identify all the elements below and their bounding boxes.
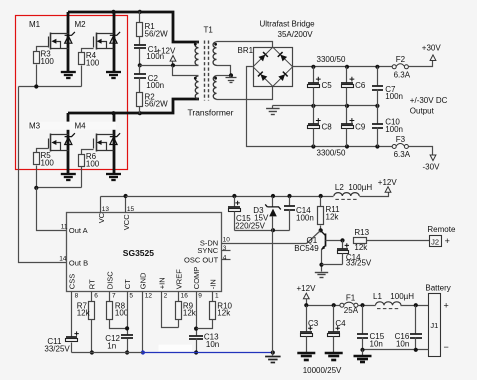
wire gate net A to Out B pin 14 — [19, 87, 67, 263]
wire C15 D3 C14 bottom link — [235, 230, 290, 232]
svg-text:33/25V: 33/25V — [346, 259, 372, 268]
power +12V battery arrow — [303, 293, 309, 299]
svg-text:15: 15 — [127, 206, 135, 213]
node C12 rail junction — [125, 350, 129, 354]
svg-text:VREF: VREF — [174, 269, 183, 289]
ground below M3 — [61, 173, 76, 175]
svg-text:220/25V: 220/25V — [235, 221, 265, 230]
svg-text:J1: J1 — [430, 321, 438, 330]
node C15 top — [232, 194, 236, 198]
diode BR1 top-right — [278, 52, 287, 61]
svg-text:12k: 12k — [77, 309, 91, 318]
capacitor C12 — [121, 334, 133, 336]
svg-text:12: 12 — [145, 292, 153, 299]
capacitor C14 100n — [289, 197, 291, 207]
svg-text:T1: T1 — [204, 26, 214, 35]
svg-text:5: 5 — [129, 292, 133, 299]
transistor M3 — [50, 134, 52, 152]
svg-text:Battery: Battery — [425, 283, 450, 292]
node M4 drain on mid bus — [111, 111, 115, 115]
node C5 bottom — [311, 104, 315, 108]
svg-text:10n: 10n — [370, 339, 383, 348]
svg-text:10000/25V: 10000/25V — [303, 366, 342, 375]
svg-text:6.3A: 6.3A — [394, 150, 411, 159]
wire R6 bottom to gate net B — [81, 167, 83, 188]
pin 10 S-DN wire — [222, 243, 307, 245]
svg-text:F1: F1 — [346, 294, 356, 303]
power +12V arrow shutdown rail — [385, 187, 391, 193]
wire gate lead M1 — [37, 47, 49, 52]
wire shutdown node down to ground rail — [272, 231, 274, 353]
power +12V arrow at center tap — [170, 56, 176, 62]
svg-text:C9: C9 — [355, 122, 366, 131]
node emitter C14b bottom junction — [319, 263, 323, 267]
node R7 rail junction — [90, 350, 94, 354]
transistor M2 — [96, 33, 98, 50]
body diode of M3 — [65, 137, 72, 144]
connector J1 Battery — [429, 294, 441, 357]
connector J2 Remote — [430, 236, 442, 247]
capacitor C15 220u — [234, 197, 236, 207]
wire R9 bottom to +IN — [178, 320, 180, 328]
wire R13 to J2 — [367, 240, 430, 242]
node snubber midpoint +12V — [138, 63, 142, 67]
node C5 top — [311, 65, 315, 69]
svg-text:9: 9 — [198, 292, 202, 299]
svg-text:1: 1 — [215, 292, 219, 299]
svg-text:4: 4 — [223, 254, 227, 261]
resistor R8 — [107, 302, 113, 320]
pin 2 +IN wire — [162, 292, 179, 328]
svg-text:L1: L1 — [373, 292, 382, 301]
diode BR1 bottom-right — [278, 72, 287, 81]
resistor R1 — [137, 23, 143, 37]
wire M1 drain-source rail — [67, 12, 70, 72]
svg-text:L2: L2 — [335, 183, 344, 192]
node primary phasing dot bottom — [194, 77, 197, 80]
node C6 bottom — [345, 104, 349, 108]
svg-text:−: − — [444, 342, 449, 352]
transformer T1 primary top winding — [195, 42, 198, 65]
node C3 top — [304, 303, 308, 307]
wire control ground rail blue part — [143, 352, 273, 354]
diode BR1 bottom-left — [258, 72, 267, 81]
node C15b bottom — [360, 348, 364, 352]
wire F1 to L1 — [358, 305, 376, 307]
svg-text:+IN: +IN — [157, 277, 166, 289]
svg-text:M4: M4 — [75, 122, 87, 131]
svg-text:16: 16 — [181, 292, 189, 299]
svg-text:C3: C3 — [308, 319, 319, 328]
svg-text:C8: C8 — [322, 122, 333, 131]
fuse F2 — [392, 65, 396, 69]
wire R8 to CT node — [110, 320, 128, 329]
ground at 0V mid rail — [272, 106, 274, 109]
ground below battery minus — [362, 350, 364, 356]
ground below M4 — [106, 173, 121, 175]
wire bridge plus to +30V rail — [293, 66, 393, 68]
svg-text:M2: M2 — [75, 20, 87, 29]
svg-text:+12V: +12V — [378, 178, 398, 187]
wire primary center tap upper — [173, 65, 199, 67]
svg-text:35A/200V: 35A/200V — [278, 30, 314, 39]
svg-text:SG3525: SG3525 — [123, 248, 154, 258]
ground at Q1 emitter — [315, 272, 328, 274]
svg-text:10: 10 — [223, 237, 231, 244]
capacitor C4 — [333, 306, 335, 332]
node F1 C15b junction — [360, 303, 364, 307]
capacitor C8 — [313, 106, 315, 125]
svg-text:F3: F3 — [396, 135, 406, 144]
wire primary center tap lower — [173, 66, 199, 76]
svg-text:3: 3 — [223, 245, 227, 252]
svg-text:C4: C4 — [335, 319, 346, 328]
svg-text:15V: 15V — [254, 213, 269, 222]
wire secondary center tap upper — [217, 66, 231, 76]
node R11 top — [319, 194, 323, 198]
wire gate net B to Out A pin 11 — [37, 188, 67, 231]
node C16 bottom — [414, 348, 418, 352]
wire gate lead M4 — [82, 150, 94, 155]
capacitor C3 — [306, 306, 308, 332]
svg-text:12k: 12k — [354, 243, 368, 252]
svg-text:3300/50: 3300/50 — [317, 148, 346, 157]
bridge rectifier BR1 — [254, 48, 293, 87]
wire gate net B horizontal — [37, 187, 82, 189]
pin 6 RT wire — [91, 292, 93, 302]
transistor M1 — [50, 33, 52, 50]
node secondary phasing dot bottom — [214, 77, 217, 80]
svg-text:C5: C5 — [322, 81, 333, 90]
wire +12V node to C2 — [139, 66, 141, 74]
fuse F1 — [340, 303, 344, 307]
resistor R9 — [176, 302, 182, 320]
transistor Q1 BC549 — [325, 234, 327, 247]
wire S-DN diagonal to collector node — [307, 231, 321, 244]
svg-text:R13: R13 — [354, 228, 369, 237]
wire control ground rail gray part — [72, 352, 143, 354]
node R1 top on top bus — [138, 10, 142, 14]
resistor R3 — [34, 52, 40, 64]
svg-text:M3: M3 — [29, 122, 41, 131]
svg-text:COMP: COMP — [192, 267, 201, 290]
node R2 bottom on mid bus — [138, 111, 142, 115]
node VCC junction — [124, 194, 128, 198]
ground below M2 — [106, 71, 121, 73]
node shutdown wire to rail — [271, 350, 275, 354]
svg-text:7: 7 — [112, 292, 116, 299]
node GND rail junction blue — [141, 350, 145, 354]
resistor R11 — [320, 197, 322, 207]
wire +12V rail over IC — [126, 196, 334, 198]
wire R10 bottom to COMP — [197, 320, 213, 329]
svg-text:11: 11 — [61, 224, 68, 231]
transformer T1 core — [204, 41, 206, 101]
svg-text:CT: CT — [123, 279, 132, 289]
wire R5 bottom to gate net B — [36, 166, 38, 188]
wire top drain bus to transformer primary top — [68, 12, 199, 42]
wire battery +12V rail — [307, 305, 340, 307]
svg-text:BC549: BC549 — [294, 244, 319, 253]
svg-text:OSC OUT: OSC OUT — [184, 256, 219, 265]
capacitor C10 — [377, 106, 379, 125]
node C7 top — [375, 65, 379, 69]
pin 5 CT wire — [127, 292, 129, 335]
svg-text:100: 100 — [115, 309, 129, 318]
wire R3 bottom to gate net A — [36, 65, 38, 87]
wire secondary center tap lower — [217, 75, 231, 77]
svg-text:+12V: +12V — [156, 47, 176, 56]
svg-text:8: 8 — [75, 292, 79, 299]
svg-text:-30V: -30V — [423, 162, 441, 171]
svg-text:-IN: -IN — [209, 279, 218, 289]
node D3 top — [271, 194, 275, 198]
svg-text:GND: GND — [139, 272, 148, 289]
capacitor C2 — [134, 73, 146, 75]
wire +12V node to center tap — [140, 65, 173, 67]
node CT R8 junction — [125, 326, 129, 330]
capacitor C16 — [415, 306, 417, 335]
body diode of M1 — [65, 36, 72, 43]
svg-text:VC: VC — [97, 212, 106, 223]
pin 15 VCC — [125, 197, 127, 213]
svg-text:12k: 12k — [326, 212, 340, 221]
capacitor C13 — [189, 335, 203, 337]
svg-text:C6: C6 — [355, 81, 366, 90]
svg-text:100n: 100n — [296, 213, 314, 222]
wire R7 to gnd rail — [91, 320, 93, 353]
svg-text:100: 100 — [86, 58, 100, 67]
svg-text:25A: 25A — [344, 306, 359, 315]
wire M2 drain-source rail — [113, 12, 116, 72]
capacitor C9 — [346, 106, 348, 125]
wire VC VCC to +12V rail — [101, 196, 126, 198]
inductor L2 100uH — [334, 193, 359, 196]
svg-text:10n: 10n — [206, 340, 219, 349]
node secondary center tap — [229, 73, 233, 77]
capacitor C1 — [134, 44, 146, 46]
svg-text:Out A: Out A — [69, 226, 88, 235]
capacitor C15 10n — [362, 306, 364, 335]
wire M3 drain-source rail — [67, 113, 70, 173]
svg-text:33/25V: 33/25V — [44, 345, 70, 354]
wire F3 to -30V — [409, 147, 433, 155]
svg-text:100µH: 100µH — [390, 292, 414, 301]
svg-text:SYNC: SYNC — [197, 246, 218, 255]
node primary center tap — [171, 63, 175, 67]
svg-text:2: 2 — [164, 292, 168, 299]
svg-text:Ultrafast Bridge: Ultrafast Bridge — [260, 20, 316, 29]
svg-text:6.3A: 6.3A — [394, 71, 411, 80]
svg-text:100n: 100n — [385, 92, 403, 101]
wire secondary bottom to bridge AC2 — [217, 87, 273, 100]
svg-text:+12V: +12V — [297, 284, 317, 293]
node C9 bottom rail — [345, 144, 349, 148]
svg-text:1n: 1n — [107, 341, 116, 350]
svg-text:+: + — [445, 236, 450, 246]
pin 8 CSS wire to C11 — [71, 292, 73, 338]
node Q1 collector junction — [319, 228, 323, 232]
pin 13 VC — [100, 197, 102, 213]
wire F2 to +30V — [409, 61, 433, 67]
wire mid drain bus to transformer primary bottom — [68, 99, 199, 113]
node C4 top — [332, 303, 336, 307]
svg-text:CSS: CSS — [67, 274, 76, 289]
transistor M4 — [96, 134, 98, 152]
wire R1 to C1 — [139, 37, 141, 45]
svg-text:56/2W: 56/2W — [145, 29, 169, 38]
ground below C3 — [297, 352, 315, 355]
resistor R7 — [89, 302, 95, 320]
pin 4 OSC OUT stub — [222, 259, 231, 261]
wire top bus to R1 — [139, 12, 141, 23]
svg-text:M1: M1 — [29, 20, 41, 29]
pin 16 VREF wire — [178, 292, 180, 302]
svg-text:100: 100 — [41, 158, 55, 167]
resistor R5 — [34, 153, 40, 165]
node C7 bottom C10 top — [375, 104, 379, 108]
white patch above ground rail — [159, 345, 193, 352]
pin 3 SYNC stub — [222, 250, 231, 252]
svg-text:Output: Output — [410, 107, 435, 116]
wire C14b bottom to emitter — [322, 264, 343, 266]
wire bridge minus to -30V rail — [247, 67, 393, 147]
capacitor C5 — [313, 67, 315, 83]
body diode of M2 — [110, 36, 117, 43]
wire Q1 base to R13 node — [326, 240, 343, 242]
node C10 bottom rail — [375, 144, 379, 148]
ground below C4 — [325, 352, 343, 355]
ground at control rail end — [272, 353, 274, 356]
node gate net B at R5 — [34, 186, 38, 190]
svg-text:100n: 100n — [146, 81, 164, 90]
diode D3 zener 15V — [272, 197, 274, 207]
wire C1 to +12V node — [139, 49, 141, 66]
resistor R10 — [210, 302, 216, 320]
ground at secondary center tap — [230, 76, 232, 78]
node C13 rail junction — [194, 350, 198, 354]
wire L2 to +12V arrow — [360, 193, 389, 197]
op-amp U1 SG3525 body — [67, 213, 222, 292]
node gate net A at R3 — [34, 84, 38, 88]
pin 7 DISC wire — [109, 292, 111, 302]
transformer T1 secondary top winding — [213, 42, 216, 65]
pin 1 -IN wire — [212, 292, 214, 302]
svg-text:56/2W: 56/2W — [145, 100, 169, 109]
fuse F3 — [392, 145, 396, 149]
wire R2 to mid bus — [139, 107, 141, 114]
svg-text:RT: RT — [88, 279, 97, 289]
resistor R4 — [79, 53, 85, 65]
svg-text:100n: 100n — [385, 125, 403, 134]
node M2 drain on top bus — [111, 10, 115, 14]
pin 12 GND wire — [142, 292, 144, 353]
transformer T1 primary bottom winding — [195, 76, 198, 99]
svg-text:J2: J2 — [431, 237, 439, 246]
capacitor C11 — [66, 336, 77, 338]
resistor R13 — [354, 238, 367, 244]
svg-text:6: 6 — [94, 292, 98, 299]
node C14 top — [287, 194, 291, 198]
svg-text:F2: F2 — [396, 55, 406, 64]
power +30V arrow — [430, 55, 436, 61]
svg-text:Transformer: Transformer — [188, 108, 234, 118]
pin 9 COMP wire — [196, 292, 198, 336]
svg-text:3300/50: 3300/50 — [317, 55, 346, 64]
white band behind M3 M4 labels — [28, 122, 116, 130]
svg-text:12k: 12k — [217, 309, 231, 318]
wire R4 bottom to gate net A — [81, 66, 83, 87]
node C8 bottom rail — [311, 144, 315, 148]
svg-text:DISC: DISC — [106, 271, 115, 290]
wire +12V arrow to rail — [306, 299, 308, 306]
node L1 C16 junction — [414, 303, 418, 307]
wire C2 to R2 — [139, 78, 141, 93]
svg-text:14: 14 — [59, 255, 67, 262]
svg-text:+30V: +30V — [422, 43, 442, 52]
diode BR1 top-left — [258, 52, 267, 61]
capacitor C7 — [377, 67, 379, 87]
wire 0V mid rail — [273, 105, 378, 107]
svg-text:BR1: BR1 — [238, 46, 254, 55]
wire gate lead M3 — [37, 149, 49, 153]
svg-text:Remote: Remote — [427, 225, 456, 234]
svg-text:100: 100 — [41, 57, 55, 66]
node base C14b R13 junction — [340, 238, 344, 242]
wire secondary top to bridge AC1 — [217, 42, 273, 48]
body diode of M4 — [110, 137, 117, 144]
wire L1 to J1 — [401, 305, 429, 307]
capacitor C6 — [346, 67, 348, 83]
node primary phasing dot top — [194, 43, 197, 46]
red highlight box around MOSFET section — [16, 16, 128, 170]
node C6 top — [345, 65, 349, 69]
svg-text:12k: 12k — [183, 309, 197, 318]
svg-text:+: + — [444, 300, 449, 310]
svg-text:10n: 10n — [396, 339, 409, 348]
svg-text:Out B: Out B — [69, 258, 88, 267]
svg-text:100µH: 100µH — [348, 183, 372, 192]
svg-text:VCC: VCC — [122, 214, 131, 230]
transformer T1 secondary bottom winding — [213, 76, 216, 99]
inductor L1 100uH — [376, 302, 402, 305]
svg-text:13: 13 — [102, 206, 110, 213]
node COMP R10 junction — [194, 327, 198, 331]
wire gate net A horizontal — [19, 86, 82, 88]
ground below M1 — [61, 71, 76, 73]
svg-text:+/-30V DC: +/-30V DC — [410, 96, 448, 105]
resistor R6 — [79, 155, 85, 167]
node secondary phasing dot top — [214, 43, 217, 46]
wire M4 drain-source rail — [113, 113, 116, 173]
wire Q1 emitter down — [321, 250, 323, 272]
wire battery minus rail — [363, 349, 429, 351]
wire gate lead M2 — [82, 49, 94, 53]
power -30V arrow — [430, 155, 436, 161]
resistor R2 — [137, 93, 143, 107]
capacitor C14 33/25V — [342, 241, 344, 249]
svg-text:100: 100 — [86, 160, 100, 169]
node D3 bottom junction — [271, 228, 275, 232]
